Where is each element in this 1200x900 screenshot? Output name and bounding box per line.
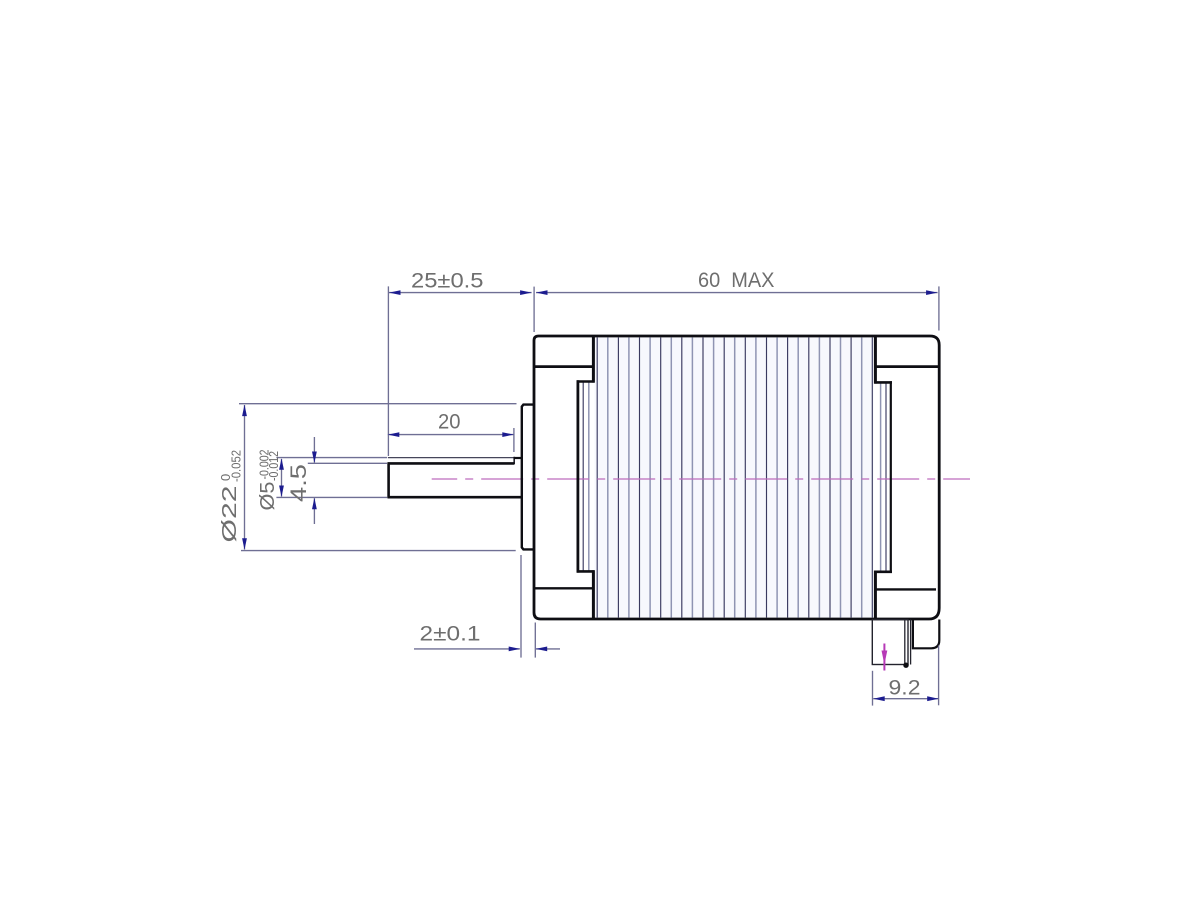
- svg-text:25±0.5: 25±0.5: [411, 270, 484, 293]
- svg-text:20: 20: [438, 411, 461, 434]
- svg-text:2±0.1: 2±0.1: [420, 622, 481, 645]
- svg-text:4.5: 4.5: [286, 464, 311, 502]
- svg-text:Ø22: Ø22: [219, 486, 241, 543]
- svg-text:9.2: 9.2: [889, 675, 921, 699]
- svg-text:60 MAX: 60 MAX: [698, 269, 775, 292]
- svg-text:-0.012: -0.012: [266, 451, 281, 481]
- svg-text:-0.052: -0.052: [229, 450, 244, 482]
- svg-text:Ø5: Ø5: [257, 482, 279, 511]
